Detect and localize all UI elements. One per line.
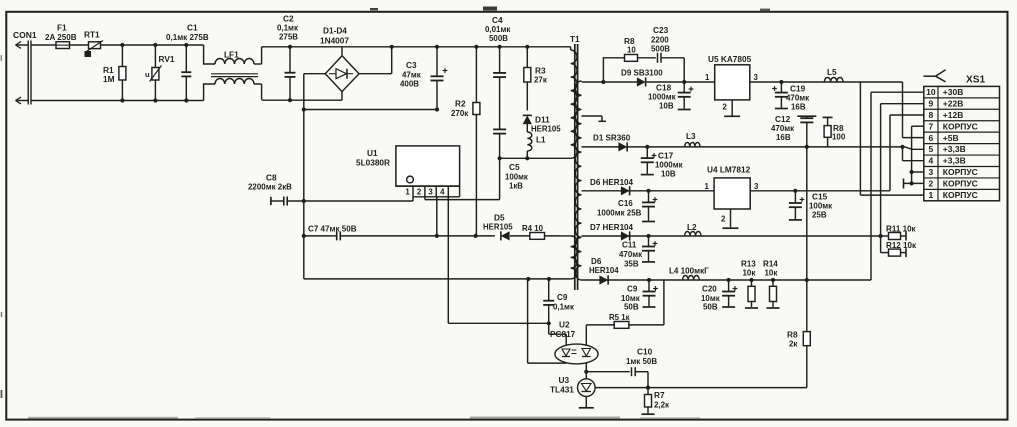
- svg-text:R4 10: R4 10: [522, 224, 544, 233]
- svg-text:C15: C15: [812, 193, 828, 202]
- svg-text:C5: C5: [509, 163, 520, 172]
- svg-text:КОРПУС: КОРПУС: [943, 190, 978, 200]
- svg-text:+3,3В: +3,3В: [943, 156, 966, 166]
- svg-text:C1: C1: [187, 24, 198, 33]
- svg-text:F1: F1: [57, 24, 67, 33]
- svg-text:50В: 50В: [703, 303, 718, 312]
- svg-text:U1: U1: [367, 149, 378, 158]
- svg-text:10к: 10к: [765, 269, 778, 278]
- svg-text:+30В: +30В: [943, 87, 964, 97]
- svg-text:10В: 10В: [659, 102, 674, 111]
- svg-text:L1: L1: [536, 136, 546, 145]
- svg-text:R5 1к: R5 1к: [609, 313, 630, 322]
- svg-text:2: 2: [721, 215, 726, 224]
- svg-text:C7 47мк 50В: C7 47мк 50В: [308, 225, 357, 234]
- svg-text:C16: C16: [618, 199, 633, 208]
- svg-text:1000мк: 1000мк: [648, 93, 676, 102]
- svg-text:HER104: HER104: [589, 266, 619, 275]
- svg-text:u: u: [145, 70, 150, 79]
- svg-text:275В: 275В: [279, 33, 298, 42]
- svg-text:R8: R8: [787, 331, 798, 340]
- svg-text:CON1: CON1: [13, 30, 37, 40]
- svg-text:1кВ: 1кВ: [509, 182, 523, 191]
- svg-text:5L0380R: 5L0380R: [356, 159, 390, 168]
- svg-text:C20: C20: [702, 285, 717, 294]
- svg-text:10: 10: [926, 87, 936, 97]
- svg-text:16В: 16В: [791, 103, 806, 112]
- svg-text:4: 4: [440, 188, 445, 197]
- svg-text:D1 SR360: D1 SR360: [593, 134, 631, 143]
- svg-text:R7: R7: [654, 391, 665, 400]
- svg-text:D11: D11: [535, 116, 550, 125]
- svg-text:C23: C23: [653, 26, 669, 35]
- svg-text:2,2к: 2,2к: [654, 401, 669, 410]
- svg-text:RV1: RV1: [159, 55, 175, 64]
- svg-text:470мк: 470мк: [786, 94, 809, 103]
- svg-text:R3: R3: [535, 67, 546, 76]
- svg-text:LF1: LF1: [224, 51, 239, 60]
- svg-text:0,01мк: 0,01мк: [485, 25, 510, 34]
- svg-text:R11 10к: R11 10к: [886, 225, 917, 234]
- svg-text:T1: T1: [570, 35, 580, 44]
- svg-text:L5: L5: [827, 68, 837, 77]
- svg-text:R1: R1: [103, 66, 114, 75]
- svg-text:2A 250В: 2A 250В: [45, 33, 77, 42]
- svg-text:1мк 50В: 1мк 50В: [626, 357, 657, 366]
- svg-text:R2: R2: [455, 100, 466, 109]
- svg-text:1000мк 25В: 1000мк 25В: [597, 209, 642, 218]
- svg-text:D7 HER104: D7 HER104: [590, 223, 634, 232]
- svg-text:R14: R14: [763, 260, 778, 269]
- svg-text:1M: 1M: [103, 75, 115, 84]
- svg-text:10к: 10к: [743, 269, 756, 278]
- svg-text:U5 KA7805: U5 KA7805: [708, 55, 752, 64]
- svg-text:C11: C11: [622, 241, 637, 250]
- svg-text:3: 3: [754, 182, 759, 191]
- svg-text:3: 3: [929, 167, 934, 177]
- svg-text:270к: 270к: [451, 109, 468, 118]
- svg-text:D5: D5: [494, 214, 505, 223]
- svg-text:D6 HER104: D6 HER104: [590, 178, 634, 187]
- svg-text:L3: L3: [686, 132, 696, 141]
- svg-text:U3: U3: [559, 376, 570, 385]
- svg-text:+3,3В: +3,3В: [943, 144, 966, 154]
- svg-text:D9 SB3100: D9 SB3100: [621, 69, 663, 78]
- svg-text:L2: L2: [687, 223, 697, 232]
- svg-text:C3: C3: [406, 61, 417, 70]
- svg-text:U2: U2: [559, 321, 570, 330]
- svg-text:2: 2: [723, 103, 728, 112]
- svg-text:КОРПУС: КОРПУС: [943, 179, 978, 189]
- svg-text:500В: 500В: [651, 45, 670, 54]
- svg-text:470мк: 470мк: [619, 250, 642, 259]
- svg-text:1000мк: 1000мк: [655, 161, 683, 170]
- svg-text:C18: C18: [656, 84, 672, 93]
- svg-text:0,1мк 275В: 0,1мк 275В: [166, 33, 209, 42]
- svg-text:1: 1: [705, 182, 710, 191]
- svg-text:C17: C17: [658, 152, 674, 161]
- svg-text:400В: 400В: [400, 80, 419, 89]
- svg-text:RT1: RT1: [84, 31, 100, 40]
- svg-text:C9: C9: [557, 293, 568, 302]
- svg-text:1: 1: [929, 190, 934, 200]
- svg-text:5: 5: [929, 144, 934, 154]
- svg-text:100: 100: [832, 133, 846, 142]
- svg-text:2: 2: [417, 188, 422, 197]
- svg-text:10: 10: [627, 46, 636, 55]
- svg-text:L4 100мкГ: L4 100мкГ: [669, 267, 709, 276]
- svg-text:7: 7: [929, 121, 934, 131]
- svg-text:4: 4: [929, 156, 934, 166]
- svg-text:C19: C19: [790, 85, 806, 94]
- svg-text:50В: 50В: [624, 303, 639, 312]
- svg-text:27к: 27к: [534, 76, 547, 85]
- svg-text:9: 9: [929, 98, 934, 108]
- svg-text:1: 1: [705, 73, 710, 82]
- svg-text:3: 3: [754, 73, 759, 82]
- svg-text:8: 8: [929, 110, 934, 120]
- svg-text:16В: 16В: [776, 133, 791, 142]
- svg-text:D1-D4: D1-D4: [323, 27, 347, 36]
- svg-text:2: 2: [929, 179, 934, 189]
- svg-text:TL431: TL431: [550, 386, 574, 395]
- svg-text:+12В: +12В: [943, 110, 964, 120]
- svg-text:0,1мк: 0,1мк: [277, 24, 298, 33]
- svg-text:D6: D6: [591, 257, 602, 266]
- svg-text:2200мк 2кВ: 2200мк 2кВ: [248, 183, 292, 192]
- svg-text:3: 3: [428, 188, 433, 197]
- svg-text:XS1: XS1: [966, 75, 986, 86]
- svg-text:C2: C2: [283, 15, 294, 24]
- svg-text:2к: 2к: [789, 340, 797, 349]
- svg-text:C4: C4: [492, 16, 503, 25]
- svg-text:25В: 25В: [812, 211, 827, 220]
- svg-text:R13: R13: [741, 260, 756, 269]
- svg-text:C12: C12: [775, 115, 791, 124]
- svg-text:2200: 2200: [651, 36, 669, 45]
- svg-text:6: 6: [929, 133, 934, 143]
- svg-text:+5В: +5В: [943, 133, 959, 143]
- svg-text:1: 1: [405, 188, 410, 197]
- svg-text:47мк: 47мк: [402, 71, 421, 80]
- svg-text:R12 10к: R12 10к: [886, 241, 917, 250]
- svg-text:КОРПУС: КОРПУС: [943, 167, 978, 177]
- svg-text:HER105: HER105: [531, 125, 561, 134]
- svg-text:C10: C10: [637, 348, 653, 357]
- svg-text:35В: 35В: [624, 260, 639, 269]
- svg-text:100мк: 100мк: [809, 202, 832, 211]
- svg-text:0,1мк: 0,1мк: [553, 303, 574, 312]
- svg-text:500В: 500В: [489, 34, 508, 43]
- svg-text:КОРПУС: КОРПУС: [943, 121, 978, 131]
- svg-text:C8: C8: [266, 174, 277, 183]
- svg-text:U4 LM7812: U4 LM7812: [707, 166, 751, 175]
- svg-text:470мк: 470мк: [771, 124, 794, 133]
- svg-text:HER105: HER105: [483, 223, 513, 232]
- svg-text:100мк: 100мк: [505, 173, 528, 182]
- svg-text:+22В: +22В: [943, 98, 964, 108]
- svg-text:1N4007: 1N4007: [320, 37, 349, 46]
- svg-text:C9: C9: [627, 285, 638, 294]
- svg-text:10В: 10В: [661, 170, 676, 179]
